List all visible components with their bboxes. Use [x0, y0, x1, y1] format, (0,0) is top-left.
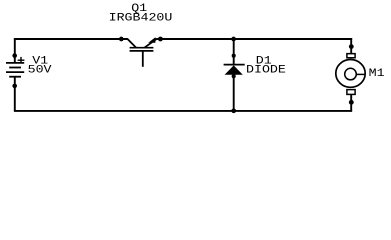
- wire left vertical lower: [14, 77, 16, 111]
- wire diode bottom: [233, 75, 235, 111]
- Q1 gate lead: [142, 51, 144, 67]
- Q1 channel bar: [130, 47, 154, 49]
- transistor Q1 (IGBT): [119, 37, 163, 67]
- svg-text:M1: M1: [369, 67, 385, 80]
- wire diode top: [233, 39, 235, 65]
- diode triangle: [225, 65, 243, 74]
- node Q1 emitter dot: [158, 37, 163, 42]
- node diode anode pin dot: [232, 74, 236, 78]
- Q1 collector diagonal: [127, 39, 136, 48]
- node diode cathode pin dot: [232, 54, 236, 58]
- node battery bottom pin dot: [12, 84, 17, 89]
- motor top terminal box: [347, 54, 355, 58]
- node motor top pin dot: [349, 44, 354, 49]
- battery plate short 1: [9, 67, 21, 69]
- wire left vertical (battery branch): [14, 38, 16, 63]
- Q1 gate bar: [130, 50, 154, 52]
- diode D1: [224, 37, 245, 114]
- node diode top junction dot: [231, 37, 236, 42]
- node motor bottom pin dot: [349, 100, 354, 105]
- Q1 emitter diagonal: [144, 39, 156, 48]
- node diode bottom junction dot: [231, 108, 236, 113]
- battery plate long 2: [6, 71, 24, 73]
- svg-text:IRGB420U: IRGB420U: [109, 12, 173, 25]
- node battery top pin dot: [12, 53, 17, 58]
- wire motor bottom vertical: [350, 95, 352, 111]
- node Q1 collector dot: [119, 37, 124, 42]
- motor M1: [336, 38, 366, 111]
- diode cathode bar: [224, 64, 245, 66]
- motor body circle: [336, 60, 365, 88]
- svg-text:50V: 50V: [28, 63, 53, 76]
- motor bottom terminal box: [347, 90, 355, 95]
- battery plate long 1: [6, 62, 24, 64]
- wire motor top vertical: [350, 38, 352, 53]
- battery V1: [6, 53, 24, 88]
- svg-text:DIODE: DIODE: [246, 63, 286, 76]
- battery plate short 2: [9, 76, 21, 78]
- Q1 emitter arrowhead: [148, 37, 155, 42]
- battery plus sign: [18, 59, 25, 61]
- wire top rail right segment: [160, 38, 352, 40]
- wire bottom rail: [14, 110, 352, 112]
- wire emitter stub: [156, 38, 161, 40]
- motor inner circle: [345, 68, 357, 80]
- motor brush bar: [356, 73, 365, 75]
- wire top rail left segment: [14, 38, 128, 40]
